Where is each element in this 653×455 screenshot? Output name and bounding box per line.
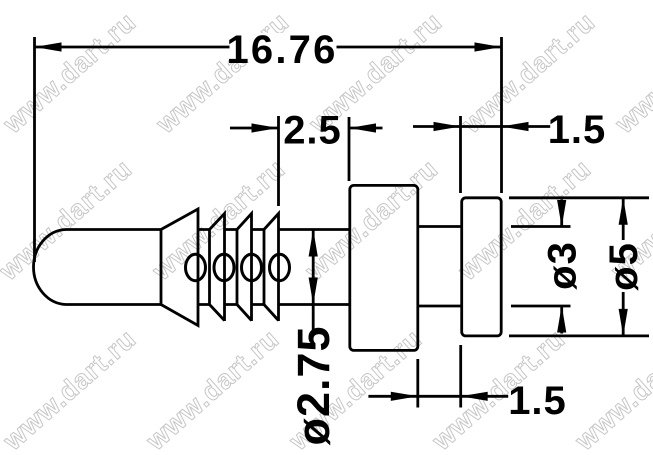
extension line: cap top (dia5): [509, 196, 649, 199]
arrowhead 2.5 left (outside, pointing right): [252, 123, 279, 132]
watermark row 1: [0, 6, 142, 139]
text mask 16.76: [230, 33, 337, 62]
arrowhead dia3 bottom (outside, pointing up): [557, 306, 566, 333]
extension line: flange right (1.5 bottom): [416, 359, 419, 408]
barb hole ellipse 4: [270, 254, 290, 280]
extension line: barb tip (2.5 left): [277, 116, 280, 206]
flare cone: [161, 209, 198, 326]
arrowhead 2.5 right (outside, pointing left): [349, 123, 376, 132]
barb hole ellipse 2: [214, 254, 234, 280]
dimension line 16.76: [35, 46, 502, 49]
svg-text:ø2.75: ø2.75: [288, 325, 339, 445]
extension line: cap right (16.76 / 1.5 right): [500, 37, 503, 193]
arrowhead dia5 top (inside, pointing up): [619, 198, 628, 225]
dome rear edge: [160, 230, 163, 305]
watermark row 2: [0, 153, 138, 286]
arrowhead dia2.75 up: [309, 230, 318, 257]
shaft bottom line segments: [198, 303, 350, 306]
arrowhead 16.76 right: [475, 42, 502, 51]
dimension line 1.5 bottom: [368, 395, 508, 398]
flange rectangle: [350, 185, 418, 350]
right shaft bottom: [418, 305, 462, 308]
dia3 arrow tails: [560, 200, 563, 334]
extension line: flange left (2.5 right): [348, 117, 351, 181]
barb hole ellipse 3: [242, 254, 262, 280]
extension line: cap left (1.5 top): [459, 116, 462, 193]
end cap rectangle: [462, 198, 502, 336]
arrowhead dia3 top (outside, pointing down): [557, 200, 566, 227]
arrowhead dia5 bottom (inside, pointing down): [619, 309, 628, 336]
watermark row 3: [0, 323, 142, 455]
dimension line dia2.75 vertical: [312, 230, 315, 331]
arrowhead 1.5 top left (outside, pointing right): [434, 122, 461, 131]
shaft top line segments: [198, 228, 350, 231]
extension line: shaft top right (dia3): [511, 225, 571, 228]
arrowhead 1.5 bottom left (outside, pointing right): [391, 392, 418, 401]
barb fin 1: [210, 214, 225, 322]
svg-text:1.5: 1.5: [548, 108, 607, 152]
dimension tails 2.5: [230, 127, 383, 130]
arrowhead dia2.75 down: [309, 278, 318, 305]
arrowhead 1.5 bottom right (outside, pointing left): [461, 392, 488, 401]
svg-text:1.5: 1.5: [508, 379, 567, 423]
dimension line dia5 vertical: [622, 198, 625, 336]
barb fin 3: [264, 214, 279, 322]
arrowhead 16.76 left: [35, 42, 62, 51]
arrowhead 1.5 top right (outside, pointing left): [502, 122, 529, 131]
LED dome lens body: [33, 230, 161, 305]
svg-text:ø5: ø5: [602, 242, 646, 291]
svg-text:2.5: 2.5: [283, 109, 342, 153]
extension line: shaft bottom right (dia3): [511, 305, 571, 308]
right shaft top: [418, 225, 462, 228]
dimension line 1.5 top: [413, 125, 550, 128]
svg-text:16.76: 16.76: [226, 28, 337, 72]
extension line: dome tip (16.76 left): [33, 37, 36, 262]
extension line: cap left bottom (1.5 bottom): [459, 345, 462, 408]
svg-text:ø3: ø3: [541, 241, 585, 290]
barb fin 2: [237, 214, 252, 322]
barb hole ellipse 1: [186, 254, 206, 280]
extension line: cap bottom (dia5): [509, 334, 649, 337]
